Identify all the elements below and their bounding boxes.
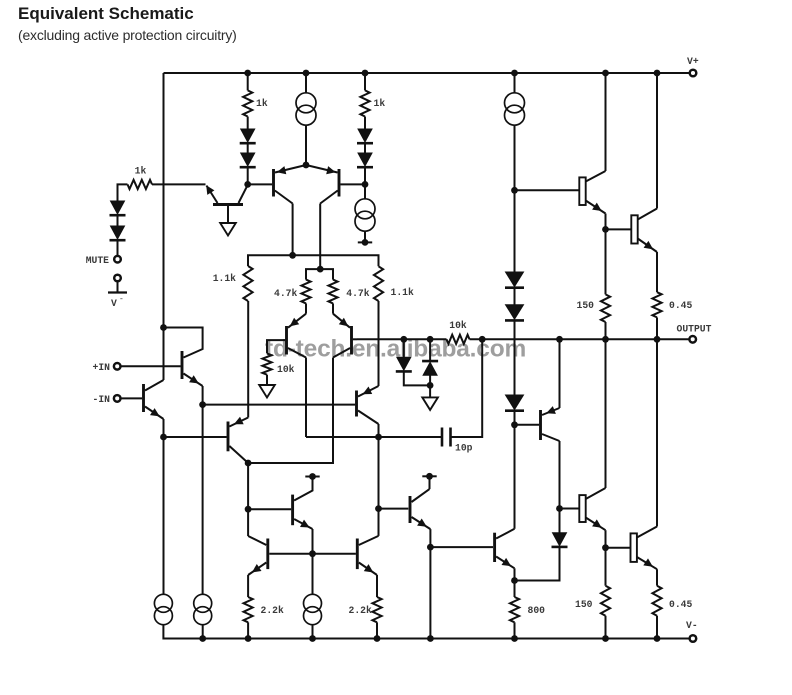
junction V- rail at R10 [511, 635, 518, 642]
diode D11 [422, 361, 438, 375]
svg-text:-: - [119, 295, 124, 304]
wire Q9 emitter to output line [559, 339, 561, 408]
wire R5 bottom lead [305, 303, 307, 313]
junction cap branch node [479, 336, 486, 343]
wire Q1 emitter to current source I4 [202, 405, 204, 594]
junction Q8 base node [199, 401, 206, 408]
diode D4 [240, 153, 256, 167]
transistor Q14d emitter arrow [643, 558, 653, 566]
wire Q14d collector to output line [656, 339, 658, 526]
svg-text:1k: 1k [256, 98, 268, 109]
junction Q7 collector node [245, 460, 252, 467]
transistor Q12 collector lead [294, 477, 312, 501]
wire Q4 collector down [319, 204, 321, 270]
transistor Q14d base bar (lower output) [631, 533, 637, 562]
svg-text:1.1k: 1.1k [213, 273, 236, 284]
transistor Q9 emitter arrow [546, 406, 556, 414]
wire Q13 base [560, 508, 580, 510]
transistor Q12 base bar [291, 495, 294, 526]
transistor Q4 emitter lead [306, 165, 338, 173]
transistor Q16 emitter lead [638, 239, 657, 253]
wire Q5 collector down [305, 358, 307, 438]
svg-text:V-: V- [686, 620, 698, 631]
junction Q15 base node [511, 187, 518, 194]
wire D11 top lead [429, 339, 431, 360]
current source I2 [355, 199, 375, 231]
wire output line right [470, 338, 690, 340]
current source I1 [296, 93, 316, 125]
wire Q11 base [430, 546, 493, 548]
open arrow below R8 [259, 385, 275, 398]
wire Q6 collector down and across [248, 358, 333, 464]
transistor Q14 emitter lead [359, 563, 377, 576]
label MUTE [86, 255, 109, 266]
diode D10 [396, 357, 412, 371]
junction compensation node [375, 434, 382, 441]
wire Q15 base [515, 189, 580, 191]
wire Q15 emitter to node [605, 214, 607, 230]
wire Q5 base [267, 340, 285, 353]
transistor Q10 emitter lead [412, 517, 431, 529]
wire D8 down to D9 [514, 321, 516, 395]
wire R14 to V- rail [376, 622, 378, 638]
label V+ [687, 56, 699, 67]
diode D9 [505, 395, 524, 411]
transistor Q17 emitter arrow [206, 185, 214, 195]
svg-text:800: 800 [528, 605, 546, 616]
capacitor C1 plates [442, 428, 451, 447]
current source I6 (center) [304, 594, 322, 624]
transistor Q13d emitter arrow [592, 519, 602, 527]
diode D7 [505, 272, 524, 288]
label OUTPUT [677, 324, 712, 335]
junction Q4 collector to 4.7k tops [317, 266, 324, 273]
resistor R5 4.7k (left) [301, 280, 310, 304]
wire -IN to Q2 base [121, 397, 143, 399]
wire R2 to D3 [247, 117, 249, 130]
node MUTE terminal [114, 256, 121, 263]
wire R3 to D5 [364, 117, 366, 130]
label -IN [93, 394, 111, 405]
wire Q1 emitter down [202, 386, 204, 405]
junction V- rail at I4 [199, 635, 206, 642]
label R4 value 1.1k [213, 273, 236, 284]
diode D8 [505, 305, 524, 321]
resistor R3 1k (right) [360, 90, 369, 116]
label +IN [93, 362, 111, 373]
junction Q16 base node [602, 226, 609, 233]
wire I4 to V- rail [202, 625, 204, 639]
wire Q13d collector to output line [605, 339, 607, 488]
transistor Q4 base bar [338, 169, 341, 197]
transistor Q17 base bar [213, 203, 243, 206]
label R15 value 150 [575, 599, 593, 610]
transistor Q7 emitter lead [229, 418, 248, 427]
wire R11 to output line [605, 322, 607, 339]
wire output line left [357, 338, 447, 340]
transistor Q14 collector lead [359, 536, 379, 545]
label R10 value 800 [528, 605, 546, 616]
junction Q9 emitter node [556, 336, 563, 343]
resistor R7 1.1k (right) [374, 266, 383, 301]
wire Q12 emitter down [312, 529, 314, 554]
wire Q9 collector down [559, 441, 561, 509]
svg-text:-IN: -IN [93, 394, 111, 405]
wire R4 bottom to Q7 emitter [247, 301, 249, 418]
node V+ terminal [690, 70, 697, 77]
transistor Q4 emitter arrow [326, 166, 336, 174]
wire Q11 emitter to node [514, 568, 516, 580]
junction x248 y463 to y509 wire [247, 463, 249, 536]
transistor Q8 collector lead [358, 411, 379, 425]
wire Q12 base [248, 508, 291, 510]
resistor R13 2.2k (left) [244, 597, 253, 622]
wire D12 to corner [515, 547, 560, 581]
resistor R16 0.45 (lower) [652, 586, 661, 616]
wire R8 to open arrow [266, 375, 268, 385]
transistor Q3 emitter lead [275, 165, 306, 173]
transistor Q1 emitter arrow [189, 375, 199, 383]
transistor Q13d collector lead [586, 488, 606, 499]
transistor Q2 collector lead [145, 380, 164, 391]
wire I2 to stub [364, 231, 366, 242]
wire Q3 collector down [292, 204, 294, 256]
wire Q16 base node to R11 [605, 229, 607, 294]
label R1 value 1k [135, 166, 147, 177]
junction Q1 collector to left rail [160, 324, 167, 331]
wire rail to I3 [514, 73, 516, 94]
wire clamp node to open arrow [429, 385, 431, 397]
junction V- rail at I6 [309, 635, 316, 642]
svg-text:10k: 10k [449, 320, 467, 331]
label R16 value 0.45 [669, 599, 692, 610]
junction on V+ rail at Q16 collector [654, 70, 661, 77]
junction Q9 base node [511, 421, 518, 428]
wire mute terminal to R1 [118, 184, 128, 201]
transistor Q8 emitter lead [358, 386, 379, 397]
label C1 value 10p [455, 443, 473, 454]
wire I3 node to D7 [514, 190, 516, 272]
junction Q14d base node [602, 544, 609, 551]
node V- terminal [690, 635, 697, 642]
wire rail to R3 [364, 73, 366, 90]
open arrow below clamp [422, 397, 438, 410]
transistor Q15 emitter arrow [592, 203, 602, 211]
transistor Q10 base bar [409, 496, 412, 523]
wire Q8 base [203, 404, 356, 406]
transistor Q10 collector lead [412, 489, 430, 502]
node OUTPUT terminal [689, 336, 696, 343]
transistor Q3 collector lead [275, 191, 293, 204]
svg-text:10k: 10k [277, 364, 295, 375]
wire Q13 base node to D12 [559, 509, 561, 533]
transistor Q6 emitter arrow [339, 318, 349, 327]
resistor R8 10k (left) [262, 353, 271, 374]
svg-text:4.7k: 4.7k [274, 288, 297, 299]
wire Q13d emitter to node [605, 530, 607, 548]
label R6 value 4.7k [346, 288, 369, 299]
diode D2 [110, 226, 126, 240]
tick-dot stub above Q10 [422, 473, 436, 480]
wire Q5 collector to compensation node [306, 436, 379, 438]
wire D1 to D2 [117, 216, 119, 227]
wire D3 to D4 [247, 144, 249, 154]
wire R13 to V- rail [247, 622, 249, 638]
wire net A horizontal [248, 255, 379, 266]
wire Q14d base [606, 547, 631, 549]
transistor Q9 collector lead [542, 434, 560, 441]
junction Q13 base node (lower driver) [556, 505, 563, 512]
wire rail to R2 [247, 73, 249, 90]
wire R12 to output line [656, 317, 658, 339]
wire D10 to clamp bottom node [404, 372, 430, 386]
svg-text:2.2k: 2.2k [349, 605, 372, 616]
wire Q9 base node down to Q11 collector [514, 425, 516, 529]
wire Q15 collector to rail [605, 73, 607, 171]
wire V- small terminal [117, 281, 119, 292]
transistor Q15 base bar [579, 177, 585, 205]
wire R6 bottom lead [332, 303, 334, 313]
wire rail to I1 [305, 73, 307, 94]
svg-text:V+: V+ [687, 56, 699, 67]
wire Q13m emitter to R13 [247, 575, 249, 597]
svg-text:V: V [111, 298, 117, 309]
wire Q10 collector up [429, 476, 431, 489]
transistor Q13d emitter lead [586, 518, 606, 531]
junction on V+ rail at current source I3 [511, 70, 518, 77]
transistor Q13 base bar (lower driver) [579, 495, 585, 522]
junction clamp D10 node [400, 336, 407, 343]
wire D4 to node Q3 base [247, 168, 249, 185]
wire Q7 base [164, 436, 227, 438]
transistor Q8 base bar [355, 391, 358, 417]
wire V- rail [163, 625, 689, 639]
resistor R15 150 (lower) [601, 586, 610, 616]
node V- small terminal (mute return) [114, 275, 121, 282]
junction Q10 base node [375, 505, 382, 512]
label V- (mute return) [111, 295, 124, 309]
current source I5 (left) [154, 594, 172, 624]
transistor Q2 base bar [142, 384, 145, 412]
transistor Q4 collector lead [320, 191, 338, 204]
transistor Q6 base bar [350, 326, 353, 355]
junction clamp bottom node [427, 382, 434, 389]
resistor R1 1k (mute) [128, 180, 153, 189]
transistor Q16 collector lead [638, 209, 657, 220]
wire I3 down to Q15 base node [514, 125, 516, 191]
label R13 value 2.2k [261, 605, 284, 616]
wire Q2 emitter to current source I5 [163, 437, 165, 594]
wire Q14d emitter to R16 [656, 569, 658, 586]
transistor Q7 emitter arrow [234, 417, 244, 425]
resistor R6 4.7k (right) [328, 280, 337, 304]
wire Q10 base [379, 508, 409, 510]
wire I6 to V- rail [312, 625, 314, 639]
junction on V+ rail at 1k right [362, 70, 369, 77]
junction on V+ rail at Q15 collector [602, 70, 609, 77]
transistor Q15 emitter lead [586, 201, 606, 214]
junction Q12 base node [245, 506, 252, 513]
ground-bar V- (mute return) [108, 291, 127, 293]
wire Q16 emitter to R12 [656, 252, 658, 292]
transistor Q3 base bar [272, 169, 275, 197]
junction on V+ rail at 1k left [244, 70, 251, 77]
wire Q10 emitter down to V- rail [429, 529, 431, 638]
label R14 value 2.2k [349, 605, 372, 616]
svg-text:10p: 10p [455, 443, 473, 454]
transistor Q12 emitter lead [294, 519, 312, 529]
wire Q9 base [515, 424, 540, 426]
wire Q16 base [606, 228, 632, 230]
transistor Q11 emitter arrow [502, 558, 512, 566]
junction Q7 base node [160, 434, 167, 441]
transistor Q5 collector lead [288, 348, 306, 358]
current source I3 [505, 93, 525, 125]
current source I4 [194, 594, 212, 624]
diode D12 [552, 533, 568, 547]
wire 4.7k top jog [306, 269, 333, 280]
wire Q14 emitter to R14 [376, 575, 378, 597]
wire Q4 base node to I2 [364, 184, 366, 199]
transistor Q17 base stub [227, 206, 229, 223]
open arrow below Q17 [220, 223, 236, 236]
wire D2 to MUTE terminal [117, 241, 119, 257]
junction diff pair emitter node [303, 162, 310, 169]
wire V+ rail [164, 72, 690, 74]
junction on V+ rail at current source I1 [303, 70, 310, 77]
label R2 value 1k [256, 98, 268, 109]
transistor Q1 emitter lead [184, 374, 203, 387]
wire R7 bottom to Q8 emitter [378, 301, 380, 386]
diode D3 [240, 129, 256, 143]
transistor Q13m emitter arrow [252, 564, 262, 572]
junction R11 output node [602, 336, 609, 343]
junction Q11 emitter node [511, 577, 518, 584]
label R9 value 10k [449, 320, 467, 331]
wire Q14 collector up [378, 437, 380, 536]
node +IN terminal [114, 363, 121, 370]
junction V- rail at Q10 emitter [427, 635, 434, 642]
diode D1 [110, 201, 126, 215]
junction V- rail at R16 [654, 635, 661, 642]
label R12 value 0.45 [669, 300, 692, 311]
junction Q3 base node [244, 181, 251, 188]
resistor R2 1k (left) [243, 90, 252, 116]
wire R1 to Q17 emitter [152, 183, 206, 185]
wire Q3 base [248, 183, 272, 185]
transistor Q8 emitter arrow [363, 387, 373, 395]
svg-text:1k: 1k [135, 166, 147, 177]
wire C1 to cap branch node [451, 339, 483, 437]
transistor Q5 base bar [285, 326, 288, 355]
transistor Q9 emitter lead [542, 408, 560, 415]
wire Q2 emitter down [163, 419, 165, 437]
label R5 value 4.7k [274, 288, 297, 299]
transistor Q14d emitter lead [637, 557, 657, 569]
svg-text:4.7k: 4.7k [346, 288, 369, 299]
resistor R12 0.45 (upper) [652, 292, 661, 317]
watermark text [265, 336, 526, 363]
wire D5 to D6 [364, 144, 366, 154]
svg-text:+IN: +IN [93, 362, 111, 373]
transistor Q15 collector lead [586, 171, 606, 182]
wire R10 to V- rail [514, 622, 516, 638]
junction Q3 collector on net A [289, 252, 296, 259]
wire Q14d base node to R15 [605, 548, 607, 586]
wire left rail vertical [163, 73, 165, 380]
wire Q8 collector down [378, 424, 380, 437]
transistor Q9 base bar [539, 410, 542, 440]
transistor Q16 emitter arrow [644, 241, 654, 250]
svg-text:0.45: 0.45 [669, 599, 692, 610]
transistor Q14 base bar [356, 539, 359, 570]
transistor Q13m base bar [266, 539, 269, 570]
transistor Q1 collector lead [164, 328, 203, 358]
transistor Q17 emitter lead [207, 186, 218, 203]
transistor Q5 emitter lead [288, 314, 306, 328]
wire D9 to Q9 base node [514, 411, 516, 425]
transistor Q5 emitter arrow [290, 318, 300, 327]
transistor Q11 emitter lead [496, 557, 514, 569]
junction R12 output node [654, 336, 661, 343]
svg-text:2.2k: 2.2k [261, 605, 284, 616]
wire D10 top lead [403, 339, 405, 357]
wire mirror base line [269, 553, 356, 555]
wire D6 to node Q4 base [364, 168, 366, 185]
transistor Q10 emitter arrow [417, 519, 427, 527]
wire Q4 base [341, 183, 366, 185]
junction V- rail at R15 [602, 635, 609, 642]
junction clamp D11 node [427, 336, 434, 343]
wire Q6 base to output line [353, 338, 357, 340]
svg-text:OUTPUT: OUTPUT [677, 324, 712, 335]
label R11 value 150 [577, 300, 595, 311]
transistor Q7 collector lead [229, 446, 248, 463]
junction V- rail at R13 [245, 635, 252, 642]
transistor Q3 emitter arrow [277, 166, 287, 174]
wire I1 to diff pair emitters [305, 125, 307, 166]
wire R16 to V- rail [656, 616, 658, 639]
transistor Q11 base bar [493, 533, 496, 562]
diode D6 [357, 153, 373, 167]
svg-text:150: 150 [577, 300, 595, 311]
transistor Q13m collector lead [248, 536, 266, 545]
label R3 value 1k [374, 98, 386, 109]
resistor R14 2.2k (right) [372, 597, 381, 622]
diode D5 [357, 129, 373, 143]
transistor Q2 emitter lead [145, 407, 164, 420]
svg-text:MUTE: MUTE [86, 255, 109, 266]
resistor R11 150 (upper) [601, 294, 610, 322]
transistor Q16 base bar [631, 215, 637, 243]
transistor Q14d collector lead [637, 527, 657, 538]
resistor R10 800 [510, 597, 519, 622]
wire Q11 emitter node to R10 [514, 581, 516, 598]
tick-dot stub above Q12 [305, 473, 319, 480]
resistor R4 1.1k (left) [243, 266, 252, 301]
transistor Q11 collector lead [496, 529, 514, 539]
wire +IN to Q1 base [121, 365, 181, 367]
svg-text:0.45: 0.45 [669, 300, 692, 311]
junction Q11 base node [427, 544, 434, 551]
transistor Q2 emitter arrow [150, 408, 160, 416]
transistor Q6 emitter lead [333, 314, 350, 328]
transistor Q12 emitter arrow [300, 520, 310, 528]
wire D7 to D8 [514, 288, 516, 305]
wire D11 bottom lead [429, 375, 431, 385]
transistor Q17 collector lead [239, 185, 248, 203]
junction V- rail at R14 [374, 635, 381, 642]
